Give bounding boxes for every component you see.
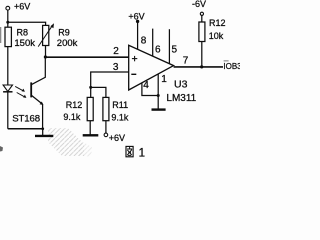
- svg-text:8: 8: [141, 35, 147, 46]
- svg-text:6: 6: [155, 45, 161, 56]
- svg-text:R9: R9: [58, 28, 70, 38]
- svg-text:3: 3: [113, 62, 119, 73]
- pin 5 wire: [168, 29, 170, 63]
- wire to pin 2: [45, 56, 128, 58]
- op-amp U3 LM311: [129, 45, 174, 90]
- pin 1 wire: [157, 74, 159, 96]
- svg-text:+6V: +6V: [128, 11, 144, 21]
- pin 6 wire: [152, 29, 154, 57]
- resistor R12 (10k) pull-up: [199, 15, 205, 67]
- ground under R12: [83, 134, 99, 136]
- wire node to R12 top: [90, 87, 92, 97]
- svg-text:1: 1: [139, 148, 145, 159]
- wire R12 bottom: [89, 121, 91, 135]
- svg-text:R12: R12: [209, 18, 226, 28]
- light arrow 2: [17, 93, 27, 98]
- svg-text:U3: U3: [174, 79, 188, 91]
- photodiode LED of ST168: [3, 85, 12, 92]
- transistor emitter with arrow: [32, 95, 44, 128]
- light arrow 1: [15, 86, 25, 91]
- resistor R12 (9.1k): [87, 97, 93, 120]
- output wire pin 7: [174, 66, 223, 68]
- wire R9 bottom to node: [45, 46, 47, 58]
- resistor R11 (9.1k): [103, 97, 109, 120]
- wire to R9 top: [8, 22, 46, 25]
- transistor Q1 base bar (ST168 phototransistor): [30, 82, 32, 97]
- svg-text:LM311: LM311: [166, 93, 196, 104]
- svg-text:2: 2: [113, 46, 119, 57]
- svg-text:200k: 200k: [57, 38, 78, 49]
- terminal -6V top right: [200, 12, 203, 15]
- svg-text:5: 5: [172, 44, 178, 55]
- pin 4 wire: [142, 83, 158, 96]
- wire bottom rail: [8, 128, 43, 130]
- pin 8 wire: [137, 21, 139, 49]
- svg-text:R12: R12: [66, 100, 83, 110]
- ground under emitter: [35, 129, 53, 136]
- wire to pin 3: [91, 72, 129, 87]
- terminal +6V bottom: [104, 133, 108, 137]
- svg-text:+6V: +6V: [14, 2, 30, 12]
- svg-text:150k: 150k: [14, 38, 35, 49]
- plus input mark: [132, 56, 137, 61]
- label IOB3 overline: [224, 60, 229, 62]
- minus input mark: [131, 73, 136, 75]
- terminal +6V left: [6, 6, 10, 10]
- svg-text:ST168: ST168: [12, 114, 40, 125]
- transistor collector: [32, 57, 46, 85]
- svg-text:10k: 10k: [209, 31, 224, 41]
- figure caption glyph 图: [126, 146, 133, 156]
- svg-text:9.1k: 9.1k: [111, 113, 129, 123]
- ground under pin 1: [152, 96, 166, 110]
- wire left rail top: [7, 10, 9, 27]
- node R9/collector/pin2: [44, 55, 47, 58]
- node output / R12 pullup: [200, 65, 203, 68]
- svg-text:7: 7: [183, 56, 189, 67]
- svg-text:R11: R11: [112, 100, 128, 110]
- wire R8 bottom to LED: [7, 47, 9, 85]
- scan edge artifact left: [0, 27, 1, 43]
- svg-text:R8: R8: [17, 28, 29, 38]
- node junction left rail / R9 branch: [6, 21, 9, 24]
- svg-text:4: 4: [143, 80, 149, 91]
- wire divider cross: [91, 87, 106, 97]
- node emitter/bottom rail: [41, 127, 44, 130]
- svg-text:+6V: +6V: [109, 133, 125, 143]
- watermark hatch: [48, 128, 84, 156]
- svg-text:9.1k: 9.1k: [63, 112, 81, 122]
- wire LED to bottom rail: [7, 92, 9, 129]
- svg-text:IOB3: IOB3: [223, 62, 240, 71]
- node divider top: [89, 86, 92, 89]
- node pin1/pin4: [157, 94, 160, 97]
- svg-text:-6V: -6V: [192, 0, 206, 9]
- svg-text:1: 1: [161, 74, 167, 85]
- resistor R8: [5, 27, 11, 46]
- node pin8 supply dot: [136, 20, 139, 23]
- wire R11 bottom: [105, 121, 107, 133]
- scan artifact bottom-left: [0, 146, 3, 152]
- potentiometer R9: [38, 23, 54, 46]
